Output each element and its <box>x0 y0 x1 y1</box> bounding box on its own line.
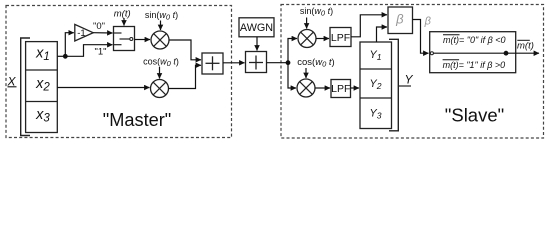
LPF box 1 <box>330 28 351 47</box>
wire x2 to multiplier M2 <box>57 87 149 89</box>
wire sin into M3 <box>306 18 308 29</box>
register stack Y1 Y2 Y3 <box>360 42 392 129</box>
label m(t) output <box>517 40 534 51</box>
bracket for X <box>21 38 30 136</box>
wire x1 out <box>57 55 65 57</box>
wire cos into M2 <box>159 67 161 79</box>
inverter amp -1 <box>75 24 93 41</box>
wire LPF1 to beta box <box>351 15 387 37</box>
adder A2 <box>246 52 267 73</box>
multiplier M1 <box>151 31 169 49</box>
rule 1 text <box>443 35 506 45</box>
wire to inverter <box>65 33 74 57</box>
wire node up to M3 <box>288 39 297 63</box>
wire beta out <box>413 20 429 54</box>
bracket for Y <box>389 39 398 131</box>
wire M3 to LPF1 <box>316 38 329 40</box>
wire AWGN to A2 <box>256 37 258 51</box>
wire cos into M4 <box>305 68 307 78</box>
multiplier M4 <box>297 79 315 97</box>
wire inverter to switch <box>93 32 112 34</box>
label m(t) <box>114 9 131 20</box>
adder A1 <box>202 53 223 74</box>
svg-text:m(t): m(t) <box>517 40 534 51</box>
node circle at decision input <box>430 52 433 55</box>
wire "1" branch <box>65 45 112 57</box>
svg-text:sin(w0 t): sin(w0 t) <box>300 6 333 17</box>
svg-text:AWGN: AWGN <box>240 22 273 34</box>
wire sin into multiplier <box>160 21 162 31</box>
wire A1 to A2 <box>223 62 245 64</box>
svg-text:"Slave": "Slave" <box>445 105 504 126</box>
label "0" <box>93 21 105 32</box>
svg-text:β: β <box>395 12 404 27</box>
wire M4 to LPF2 <box>315 87 330 89</box>
wire Y stack to beta box <box>377 27 388 42</box>
wire decision out <box>506 52 539 54</box>
svg-text:cos(w0 t): cos(w0 t) <box>297 57 334 69</box>
beta box <box>388 7 413 34</box>
wire switch to multiplier <box>135 39 151 41</box>
register stack x1 x2 x3 <box>26 42 58 133</box>
AWGN box <box>239 18 274 37</box>
wire M2 to adder <box>169 65 202 88</box>
vector label Y <box>399 73 414 87</box>
wire A2 to node <box>267 62 289 64</box>
rule 2 text <box>443 60 506 70</box>
svg-text:cos(w0 t): cos(w0 t) <box>143 57 179 69</box>
svg-text:m(t): m(t) <box>114 9 131 20</box>
node junction dot 3 <box>504 51 509 56</box>
label cos(w0 t) <box>143 57 179 69</box>
svg-text:LPF: LPF <box>331 83 350 95</box>
svg-text:m(t)= "1" if β >0: m(t)= "1" if β >0 <box>443 60 506 70</box>
wire node down to M4 <box>288 63 296 88</box>
label beta out <box>424 16 432 28</box>
vector label X <box>7 75 17 89</box>
switch box <box>114 27 135 51</box>
svg-text:-1: -1 <box>77 28 85 39</box>
svg-text:"1": "1" <box>94 47 106 58</box>
label "Slave" <box>445 105 504 126</box>
wire through decision box <box>433 52 506 54</box>
svg-text:Y: Y <box>405 73 414 87</box>
label cos(w0 t) slave <box>297 57 334 69</box>
label "Master" <box>103 110 172 130</box>
svg-text:sin(w0 t): sin(w0 t) <box>145 10 178 22</box>
svg-text:LPF: LPF <box>331 32 350 44</box>
svg-text:m(t)= "0" if β <0: m(t)= "0" if β <0 <box>443 35 506 45</box>
multiplier M3 <box>298 30 316 48</box>
LPF box 2 <box>331 80 351 98</box>
label sin(w0 t) slave <box>300 6 333 17</box>
wire m(t) into switch <box>123 18 125 26</box>
svg-text:"0": "0" <box>93 21 105 32</box>
node junction dot <box>63 54 68 59</box>
decision box <box>430 32 516 73</box>
multiplier M2 <box>151 80 169 98</box>
svg-text:"Master": "Master" <box>103 110 172 130</box>
dashed box "Slave" <box>281 5 544 139</box>
node junction dot 2 <box>286 60 291 65</box>
wire LPF2 to Y stack <box>351 87 360 89</box>
wire M1 to adder <box>169 40 201 60</box>
svg-text:β: β <box>424 16 432 28</box>
dashed box "Master" <box>6 6 232 138</box>
label "1" <box>94 47 106 58</box>
label sin(w0 t) <box>145 10 178 22</box>
